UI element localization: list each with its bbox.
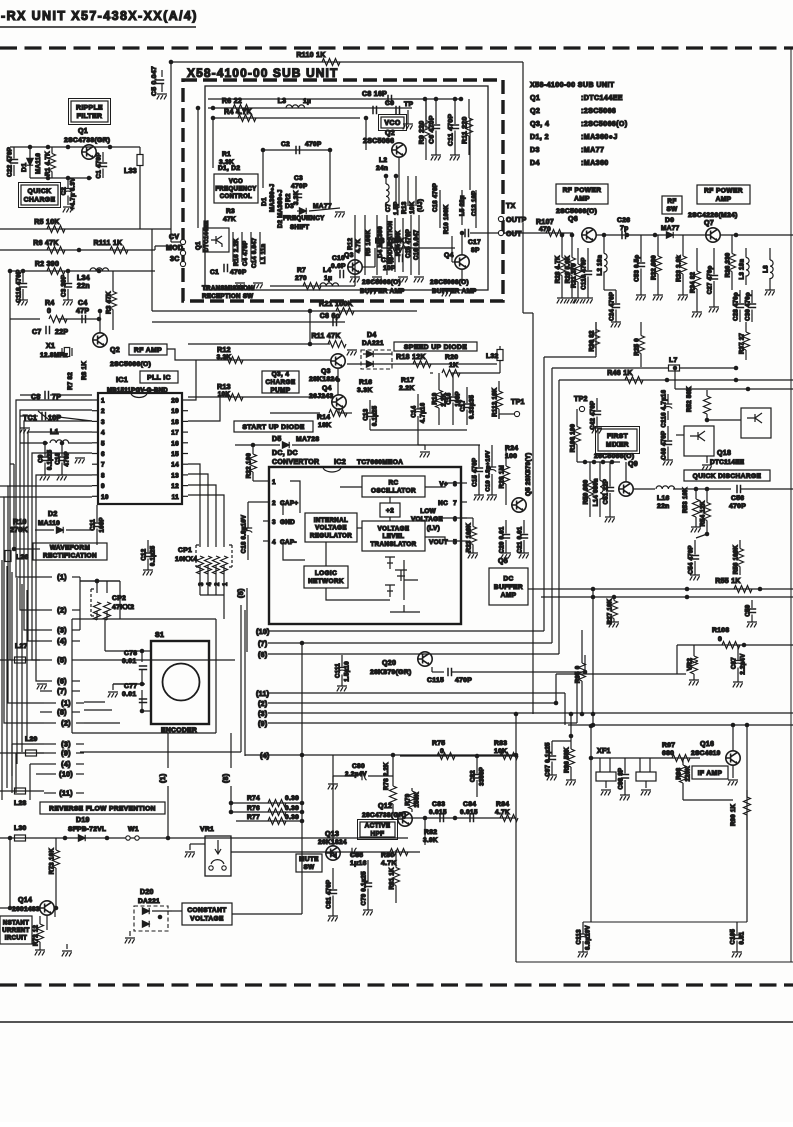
svg-text:R97: R97 — [662, 742, 675, 749]
svg-text:C8 16P: C8 16P — [362, 91, 387, 98]
svg-text:R111 1K: R111 1K — [94, 240, 123, 247]
svg-text:R54 12K: R54 12K — [701, 500, 707, 526]
resistor R110 1K — [322, 59, 340, 66]
svg-text:(5): (5) — [57, 656, 67, 665]
inductor L26 — [5, 551, 11, 562]
svg-text:C11 470P: C11 470P — [448, 114, 455, 146]
node d — [211, 106, 216, 111]
svg-text:1: 1 — [101, 398, 105, 405]
connector (6) — [40, 680, 52, 682]
svg-text:OUTP: OUTP — [506, 217, 527, 224]
svg-text:C10: C10 — [56, 452, 62, 464]
capacitor C18 6.8u10V vertical — [247, 502, 249, 528]
resistor R74 0.39 — [231, 802, 302, 804]
svg-text:C83: C83 — [432, 801, 445, 808]
RC OSCILLATOR box — [362, 476, 425, 497]
crystal filter XF1 element 2 — [636, 772, 656, 781]
svg-text:C111: C111 — [336, 663, 342, 678]
IC2 pin 1 — [263, 480, 269, 482]
svg-text:28K1824: 28K1824 — [309, 376, 339, 383]
svg-text:C51 22P: C51 22P — [604, 479, 610, 504]
capacitor C21 0.01 vertical — [523, 520, 525, 534]
capacitor C14 4.7u16 vertical — [417, 394, 419, 409]
svg-text:(6): (6) — [57, 677, 67, 686]
svg-text:(6): (6) — [258, 652, 267, 659]
wire L28 row — [0, 790, 44, 792]
bus ring around encoder — [72, 618, 216, 620]
svg-text:15: 15 — [171, 451, 179, 458]
svg-text:C84: C84 — [463, 801, 476, 808]
svg-text:(8): (8) — [223, 774, 230, 783]
svg-text:R81 1K: R81 1K — [390, 867, 396, 890]
svg-text:SW: SW — [303, 864, 315, 871]
wire R73 to Q14 row — [55, 880, 57, 908]
svg-text:BUFFER: BUFFER — [494, 584, 523, 591]
svg-text:R25 0: R25 0 — [635, 338, 641, 356]
svg-text:TRANSLATOR: TRANSLATOR — [370, 541, 416, 548]
svg-text:2: 2 — [101, 408, 105, 415]
capacitor C98 8P — [624, 758, 626, 774]
svg-text:FREQUENCY: FREQUENCY — [215, 187, 256, 193]
svg-text:RC: RC — [388, 480, 398, 487]
left bus verticals — [1, 560, 3, 800]
vertical main left trunk — [9, 464, 11, 660]
resistor R52 56K vertical — [706, 390, 708, 396]
ground D20 — [125, 938, 135, 943]
RF POWER AMP box 2 — [697, 185, 750, 204]
svg-text:R26 1M: R26 1M — [499, 465, 506, 488]
capacitor C15 470P vertical — [478, 445, 480, 467]
speed bottom rail — [370, 429, 467, 431]
resistor R81 1K vertical — [395, 850, 397, 868]
capacitor C6 6p — [333, 318, 337, 326]
resistor R33 3.9k vertical — [682, 235, 684, 256]
capacitor C10 470P vertical — [61, 443, 63, 456]
svg-text:(1): (1) — [57, 573, 67, 582]
connector (1) lower — [44, 702, 56, 704]
capacitor C16 100P vertical — [452, 373, 454, 396]
node R111 — [77, 248, 82, 253]
svg-text:C97 0.1μ25: C97 0.1μ25 — [546, 742, 552, 777]
svg-text:R83: R83 — [494, 740, 507, 747]
diode D1 MA110 vertical — [29, 147, 31, 178]
svg-text:(3): (3) — [57, 626, 67, 635]
inductor L33 — [137, 155, 143, 166]
svg-text:(1): (1) — [160, 774, 167, 783]
svg-text:0.01: 0.01 — [740, 931, 746, 944]
svg-text:R24: R24 — [505, 445, 518, 452]
svg-text:3C: 3C — [170, 256, 180, 263]
svg-text:C4 470P: C4 470P — [243, 241, 249, 266]
node b — [434, 97, 439, 102]
svg-text:RF POWER: RF POWER — [704, 188, 743, 195]
svg-text:(3): (3) — [61, 740, 71, 749]
svg-text:470P: 470P — [455, 677, 472, 684]
left cap column wires — [232, 232, 234, 262]
QUICK DISCHARGE box — [684, 470, 770, 481]
svg-text:C2: C2 — [62, 187, 68, 196]
resistor R78 2.2K vertical — [391, 753, 396, 758]
QUICK CHARGE box — [21, 185, 58, 205]
svg-text:(2): (2) — [57, 606, 67, 615]
ground Q3 top — [347, 350, 357, 355]
resistor R21 100K — [336, 308, 354, 315]
inductor L8 vertical — [769, 248, 771, 260]
svg-text:R73 10K: R73 10K — [49, 848, 56, 875]
svg-text:-RX UNIT X57-438X-XX(A/4): -RX UNIT X57-438X-XX(A/4) — [1, 9, 198, 23]
node e — [453, 97, 458, 102]
svg-text:SW: SW — [666, 206, 678, 213]
svg-text:R16: R16 — [359, 379, 372, 386]
ground C9 — [407, 110, 409, 124]
svg-text:OUT: OUT — [506, 231, 522, 238]
svg-text:R7: R7 — [297, 267, 306, 274]
svg-text:Q5: Q5 — [498, 558, 508, 565]
svg-text:3300P: 3300P — [480, 767, 486, 786]
svg-text:VOLTAGE: VOLTAGE — [378, 525, 410, 532]
svg-text:CP1: CP1 — [178, 547, 192, 554]
svg-text:C3: C3 — [294, 175, 303, 182]
wire R110 rail — [171, 61, 523, 63]
resistor R6 22 — [233, 105, 251, 112]
capacitor C9 7P — [373, 106, 377, 114]
wire C5 branch — [170, 62, 172, 229]
svg-text:3.3K: 3.3K — [219, 159, 234, 166]
svg-text:Q20: Q20 — [382, 660, 396, 667]
svg-text:D2: D2 — [48, 511, 58, 518]
transistor Q1 DTC144EE box — [203, 228, 229, 252]
svg-text:C21 0.01: C21 0.01 — [518, 526, 524, 553]
svg-text:C30 470ρ: C30 470ρ — [746, 292, 752, 321]
pad OUTP — [498, 216, 503, 221]
connector (10) lower — [44, 773, 56, 775]
wire xf trunk down — [590, 790, 592, 922]
svg-text:D4: D4 — [367, 332, 377, 339]
svg-text:470P: 470P — [291, 183, 308, 190]
svg-text:R11 220: R11 220 — [462, 116, 469, 143]
wire CP1 downs — [199, 576, 201, 595]
ground D3 — [335, 212, 345, 217]
pad OUT — [498, 230, 503, 235]
left lower bus verticals — [11, 744, 13, 793]
resistor R28 4.7K vertical — [561, 235, 563, 258]
svg-text:L2: L2 — [379, 157, 387, 164]
resistor R29 5.6K vertical — [571, 235, 573, 258]
node f — [28, 145, 33, 150]
svg-text:L30: L30 — [14, 825, 27, 832]
svg-text:R1: R1 — [222, 151, 231, 158]
svg-text:26K1824: 26K1824 — [318, 839, 347, 846]
inductor L3 1u — [286, 105, 305, 108]
svg-text:0.6P: 0.6P — [331, 263, 346, 270]
svg-text:Q3, 4: Q3, 4 — [530, 120, 549, 128]
wire xf rail — [591, 757, 667, 759]
svg-text:2SC5066: 2SC5066 — [363, 138, 394, 145]
svg-text:D5: D5 — [272, 436, 282, 443]
wire main low — [0, 837, 408, 839]
svg-text:L26: L26 — [16, 554, 29, 561]
resistor R6 47K rail — [0, 249, 155, 251]
resistor R34 82 vertical — [696, 248, 698, 271]
connector (1) — [40, 576, 52, 578]
resistor R107 470 — [546, 230, 564, 237]
svg-text:11: 11 — [172, 494, 180, 501]
wire left col a — [9, 271, 11, 319]
ground speed — [420, 452, 430, 457]
page bottom dashed border — [0, 983, 793, 986]
svg-text:R55 1K: R55 1K — [715, 578, 741, 585]
capacitor C53 0.5p vertical — [640, 235, 642, 262]
node j — [12, 547, 17, 552]
ground C5 — [157, 94, 167, 99]
svg-text:C17: C17 — [468, 239, 481, 246]
wire R110 to OUTP — [522, 62, 524, 219]
svg-text:2SC5066(O): 2SC5066(O) — [556, 208, 597, 215]
svg-text:C17: C17 — [461, 399, 467, 411]
connector (4) — [40, 640, 52, 642]
svg-text:NSTANT: NSTANT — [3, 921, 29, 927]
svg-text:SHIFT: SHIFT — [290, 224, 309, 231]
svg-text:47P: 47P — [76, 308, 89, 315]
svg-text:(7): (7) — [57, 687, 67, 696]
svg-text:470P: 470P — [305, 141, 322, 148]
first mixer rail — [577, 461, 620, 463]
svg-text:REGULATOR: REGULATOR — [310, 532, 352, 539]
svg-text:R12: R12 — [347, 237, 354, 250]
svg-text:10P: 10P — [383, 265, 396, 272]
inductor L28 — [15, 788, 26, 794]
resistor R96 58K vertical — [570, 736, 572, 749]
svg-text:4: 4 — [272, 539, 276, 546]
capacitor C20 0.01 vertical — [505, 520, 507, 534]
INSTANT CURRENT CIRCUIT box — [0, 916, 32, 944]
svg-text::2SC5066(O): :2SC5066(O) — [581, 120, 628, 128]
svg-text:L5 22μ: L5 22μ — [460, 195, 466, 216]
resistor R76 0.39 — [231, 811, 302, 813]
transistor Q20 28K879(GR) — [418, 652, 432, 666]
svg-text:R112 10K: R112 10K — [493, 387, 499, 416]
svg-text:0.01: 0.01 — [122, 658, 136, 665]
svg-text:R9 220: R9 220 — [419, 121, 426, 145]
capacitor C82 3300P vertical — [476, 756, 478, 774]
wire hpf down — [515, 756, 517, 818]
svg-text:ACTIVE: ACTIVE — [365, 823, 391, 830]
svg-text:(9): (9) — [61, 749, 71, 758]
CHARGE PUMP box — [262, 371, 299, 393]
svg-text:PLL IC: PLL IC — [147, 374, 171, 381]
svg-text:W1: W1 — [128, 826, 139, 833]
svg-text:100: 100 — [505, 453, 517, 460]
svg-text:C14 0.047: C14 0.047 — [252, 237, 258, 268]
svg-text:D1, D2: D1, D2 — [218, 165, 240, 172]
svg-text:VOLTAGE: VOLTAGE — [411, 516, 443, 523]
VCO box — [381, 117, 404, 128]
wire trunk x593 — [592, 589, 594, 725]
connector (3) lower — [44, 743, 56, 745]
svg-text:C53 0.5ρ: C53 0.5ρ — [635, 255, 641, 282]
CONSTANT VOLTAGE box — [182, 903, 232, 925]
resistor R73 10K vertical — [55, 838, 57, 850]
capacitor C19 6.8u10V vertical — [491, 445, 493, 467]
wire hpf rail — [400, 755, 516, 757]
wire CV feed — [170, 229, 172, 242]
encoder wires — [142, 650, 151, 652]
wire (1) drop — [167, 733, 169, 768]
svg-text:MA77: MA77 — [661, 225, 680, 232]
svg-text:2: 2 — [214, 582, 221, 586]
wire R55 — [528, 588, 793, 590]
svg-text:INTERNAL: INTERNAL — [314, 517, 348, 524]
svg-text:4: 4 — [206, 582, 213, 586]
svg-text:DC: DC — [503, 576, 513, 583]
WAVEFORM RECTIFICATION box — [33, 543, 107, 560]
svg-text:L29: L29 — [25, 736, 38, 743]
svg-text:R8 100K: R8 100K — [375, 238, 405, 245]
svg-text:+4.7μ 6.3V: +4.7μ 6.3V — [71, 178, 77, 211]
svg-text:26C5066(O): 26C5066(O) — [594, 453, 634, 460]
svg-text:1: 1 — [272, 479, 276, 486]
svg-text:4: 4 — [101, 430, 105, 437]
resistor R111 1K — [110, 247, 128, 254]
svg-text:DA221: DA221 — [138, 898, 160, 905]
svg-text:R6 22: R6 22 — [222, 98, 242, 105]
svg-text:IRCUIT: IRCUIT — [5, 936, 27, 942]
svg-text:R3 47K: R3 47K — [106, 291, 113, 314]
IC2 pin 5 VOUT — [461, 540, 467, 542]
svg-text:28K879(GR): 28K879(GR) — [370, 669, 412, 676]
svg-text:R34 82: R34 82 — [691, 272, 697, 294]
svg-text:1μ: 1μ — [303, 98, 311, 105]
capacitor C54 470P vertical — [694, 540, 696, 555]
svg-text:Q5 28K879(Y): Q5 28K879(Y) — [525, 453, 532, 497]
svg-text:WAVEFORM: WAVEFORM — [50, 545, 90, 552]
svg-text:RF AMP: RF AMP — [134, 347, 162, 354]
modulation column grounds — [350, 277, 360, 282]
IC2 pin 4 CAP- — [263, 540, 269, 542]
svg-text:CONSTANT: CONSTANT — [187, 907, 226, 914]
svg-text:NETWORK: NETWORK — [308, 578, 344, 585]
svg-text:IF AMP: IF AMP — [698, 770, 723, 777]
svg-text:20: 20 — [171, 398, 179, 405]
ACTIVE HPF box — [360, 822, 395, 837]
svg-text:L28: L28 — [14, 800, 27, 807]
svg-text:(4): (4) — [61, 760, 71, 769]
capacitor C79 0.1u25 vertical — [367, 860, 369, 882]
svg-text:R75: R75 — [432, 740, 445, 747]
resistor R25 0 vertical — [640, 322, 642, 336]
connector (8) — [40, 711, 52, 713]
svg-text:4.7μ16: 4.7μ16 — [421, 402, 427, 423]
svg-text:R56 100K: R56 100K — [734, 544, 740, 574]
svg-text:120K: 120K — [686, 766, 692, 782]
svg-text:D4: D4 — [530, 159, 540, 167]
svg-text:150K: 150K — [415, 792, 421, 808]
svg-text:SPEED UP DIODE: SPEED UP DIODE — [404, 344, 467, 351]
svg-text:2601483: 2601483 — [12, 906, 40, 913]
svg-text:R1 4.7K: R1 4.7K — [45, 151, 52, 176]
connector (3) — [40, 629, 52, 631]
svg-text:0.39: 0.39 — [285, 795, 299, 802]
svg-text:2SC4619: 2SC4619 — [691, 750, 721, 757]
svg-text:RF: RF — [667, 198, 676, 205]
svg-text:R52 56K: R52 56K — [687, 386, 693, 412]
svg-text:R30 82: R30 82 — [590, 330, 596, 352]
svg-text:+2: +2 — [386, 507, 394, 514]
inductor L16 22n — [656, 486, 675, 489]
transistor Q12 28C4738(GR) — [398, 812, 412, 826]
resistor R50 680 vertical — [589, 462, 591, 481]
wire (5) vertical — [240, 605, 242, 752]
svg-text:TM: TM — [330, 852, 337, 857]
capacitor C11 470P vertical — [454, 99, 456, 124]
svg-text:C110 470P: C110 470P — [582, 257, 588, 289]
svg-text:R108: R108 — [712, 627, 729, 634]
node c — [459, 97, 464, 102]
svg-text:MA110: MA110 — [38, 520, 60, 527]
svg-text:2SC4738(GR): 2SC4738(GR) — [64, 137, 110, 144]
svg-text:16: 16 — [171, 440, 179, 447]
node cp2 — [95, 579, 100, 584]
capacitor C11 100P vertical — [96, 505, 98, 522]
REVERSE FLOW PREVENTION box — [40, 802, 165, 814]
svg-text:R19: R19 — [433, 392, 439, 404]
capacitor C46 470P vertical — [667, 426, 669, 440]
capacitor C3 39P vertical — [67, 271, 69, 283]
wire bottom link rail — [583, 921, 747, 923]
svg-text:R13: R13 — [217, 384, 231, 391]
ground sub1 — [235, 283, 245, 288]
RF bus corner B — [551, 368, 553, 643]
svg-text:C6 470P: C6 470P — [429, 115, 436, 144]
transistor Q3 28K1824 — [331, 354, 345, 368]
resistor R54 12K vertical — [706, 489, 708, 503]
resistor R9 220 vertical — [425, 99, 427, 121]
svg-text:AMP: AMP — [501, 592, 517, 599]
svg-text:4.7K: 4.7K — [355, 238, 362, 253]
svg-text:470P: 470P — [729, 503, 746, 510]
svg-text:(1): (1) — [61, 699, 71, 708]
svg-text:Q7: Q7 — [704, 220, 714, 227]
svg-text:C28 470ρ: C28 470ρ — [734, 292, 740, 321]
svg-text:Q1: Q1 — [78, 128, 88, 135]
svg-text:8: 8 — [101, 472, 105, 479]
svg-text:0.39: 0.39 — [285, 814, 299, 821]
resistor R5 10K rail — [0, 228, 171, 230]
svg-text:DA221: DA221 — [362, 340, 384, 347]
crystal filter XF1 element 1 — [596, 772, 616, 781]
svg-text:VCO: VCO — [384, 120, 401, 127]
wire L27 row — [0, 659, 40, 661]
wire lower rail — [541, 596, 793, 598]
svg-text:Q3, 4: Q3, 4 — [272, 371, 290, 378]
capacitor C105 0.01 vertical — [736, 922, 738, 934]
svg-text:QUICK: QUICK — [28, 188, 52, 195]
svg-text:X1: X1 — [46, 343, 55, 350]
svg-text:Q16: Q16 — [700, 741, 714, 748]
svg-text:(UJ): (UJ) — [417, 199, 424, 212]
wire Q14 row — [54, 908, 56, 917]
svg-text:R28 4.7K: R28 4.7K — [556, 255, 562, 283]
capacitor C113 6.8u10V vertical — [582, 922, 584, 934]
svg-text:24n: 24n — [376, 165, 388, 172]
resistor R3 47K vertical — [112, 271, 114, 292]
svg-text:10: 10 — [101, 494, 109, 501]
svg-text:R72 12: R72 12 — [34, 925, 40, 947]
wire q3 rail — [270, 285, 355, 287]
svg-text:2SC5066(O): 2SC5066(O) — [362, 279, 401, 286]
svg-text:C22 470P: C22 470P — [7, 147, 14, 177]
resistor R46 1K wire — [559, 379, 793, 381]
